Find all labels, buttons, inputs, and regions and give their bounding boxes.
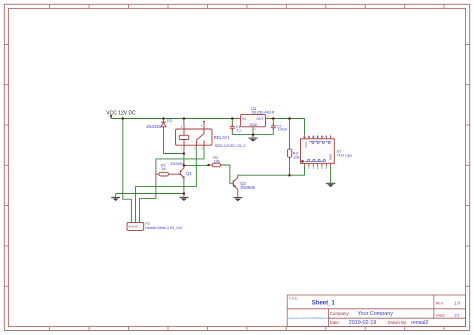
svg-text:Your Company: Your Company (358, 311, 394, 317)
svg-text:7414 copy: 7414 copy (337, 153, 353, 157)
svg-text:10k: 10k (293, 155, 299, 160)
wire U1 GND pin to ground (252, 131, 254, 139)
svg-text:Header-Male-2.54_1x3: Header-Male-2.54_1x3 (145, 226, 182, 230)
wire R2 to Q2 base (221, 165, 233, 183)
svg-text:GND: GND (328, 154, 332, 160)
svg-text:1u: 1u (236, 128, 240, 133)
wire relay common to header pin2 (136, 149, 197, 223)
wire relay NO pin to R1 and header pin3 (140, 149, 205, 223)
wire 5V rail from U1 OUT to U2 VCC (269, 119, 304, 136)
title block (287, 295, 465, 326)
wire Q1 emitter to ground (183, 178, 185, 198)
junction Q1 emitter / ground rail (183, 192, 186, 195)
ground under Q2 (233, 198, 242, 202)
svg-text:easyeda.com/rensal2/sheet-1ab: easyeda.com/rensal2/sheet-1ab (288, 316, 331, 320)
wire C2 branch (272, 119, 274, 135)
wire main 12V rail (111, 118, 236, 120)
svg-text:RELAY1: RELAY1 (214, 135, 230, 140)
svg-text:Company:: Company: (330, 311, 350, 316)
svg-text:2N3906: 2N3906 (240, 185, 255, 190)
junction GND node under U1 (252, 133, 255, 136)
svg-text:100uf: 100uf (278, 127, 288, 131)
resistor R1 1k (156, 172, 180, 176)
junction coil- / D1 anode (183, 152, 186, 155)
svg-text:1/1: 1/1 (454, 312, 460, 317)
wire R3 pullup vertical (289, 119, 291, 176)
net flag VCC 12V DC (106, 111, 136, 119)
header P2 Header-Male-2.54_1x3 (127, 222, 144, 230)
svg-text:Sheet_1: Sheet_1 (312, 301, 336, 307)
wire U2 GND pin to ground (330, 167, 332, 184)
svg-text:1.0: 1.0 (454, 301, 460, 306)
svg-text:1N4448: 1N4448 (146, 124, 161, 129)
svg-text:IN: IN (242, 117, 246, 121)
capacitor C2 100uf (271, 124, 276, 131)
wire VCC rail to relay coil+ pin (183, 119, 185, 125)
IC U2 7414 (301, 135, 335, 166)
junction R3 bottom / Q2 / U2 pin1 (288, 174, 291, 177)
capacitor C1 1u (230, 124, 235, 131)
junction rail / C1 (231, 117, 234, 120)
svg-text:Sheet:: Sheet: (436, 313, 446, 317)
junction R2 left (207, 164, 210, 167)
wire C1 branch (231, 119, 233, 135)
svg-text:SRD-12VDC-SL-C: SRD-12VDC-SL-C (215, 144, 247, 148)
svg-text:D1: D1 (167, 118, 173, 123)
ground left (111, 197, 120, 201)
junction rail / relay coil+ (183, 117, 186, 120)
svg-text:78L05Q-AB3-R: 78L05Q-AB3-R (251, 110, 275, 114)
svg-text:GND: GND (250, 123, 258, 127)
svg-text:1k: 1k (161, 166, 165, 171)
ground under U1 (249, 138, 258, 142)
ground under U2 (326, 183, 336, 187)
wire Q1 collector node to R2 (184, 164, 209, 166)
regulator U1 78L05Q-AB3-R (236, 115, 269, 131)
svg-text:TITLE:: TITLE: (289, 297, 298, 301)
junction Q1 collector node (183, 164, 186, 167)
svg-text:Q1: Q1 (186, 171, 192, 176)
svg-text:Date:: Date: (330, 320, 340, 325)
svg-text:VCC: VCC (304, 142, 308, 148)
relay RELAY1 SRD-12VDC-SL-C (176, 121, 213, 149)
svg-text:#1 #2 #3: #1 #2 #3 (129, 225, 139, 228)
diode D1 1N4448 (161, 119, 166, 130)
junction rail / D1 (162, 117, 165, 120)
wire Q2 top to U2 pin1 with 5V/R3 node (238, 167, 305, 176)
junction 5V rail / R3 (288, 117, 291, 120)
resistor R2 10k (209, 163, 221, 167)
junction 5V rail / C2 (272, 117, 275, 120)
junction rail / header branch (122, 117, 125, 120)
svg-text:OUT: OUT (256, 117, 263, 121)
svg-text:2019-02-19: 2019-02-19 (349, 320, 377, 326)
wire VCC branch down to header pin1 (123, 119, 132, 223)
svg-text:REV:: REV: (436, 302, 444, 306)
transistor Q2 2N3906 (232, 180, 234, 186)
svg-text:10k: 10k (214, 158, 220, 163)
wire relay coil- down to Q1 collector (183, 149, 185, 166)
transistor Q1 2N3904 (179, 171, 181, 176)
svg-text:rensal2: rensal2 (411, 320, 428, 326)
wire ground node under U1 (232, 134, 273, 136)
ground under Q1 (179, 197, 188, 201)
wire D1 anode to relay coil- (164, 129, 184, 153)
svg-text:Drawn By:: Drawn By: (388, 320, 408, 325)
resistor R3 10k (vertical) (287, 149, 291, 158)
wire ground rail left of Q1 (116, 194, 184, 198)
